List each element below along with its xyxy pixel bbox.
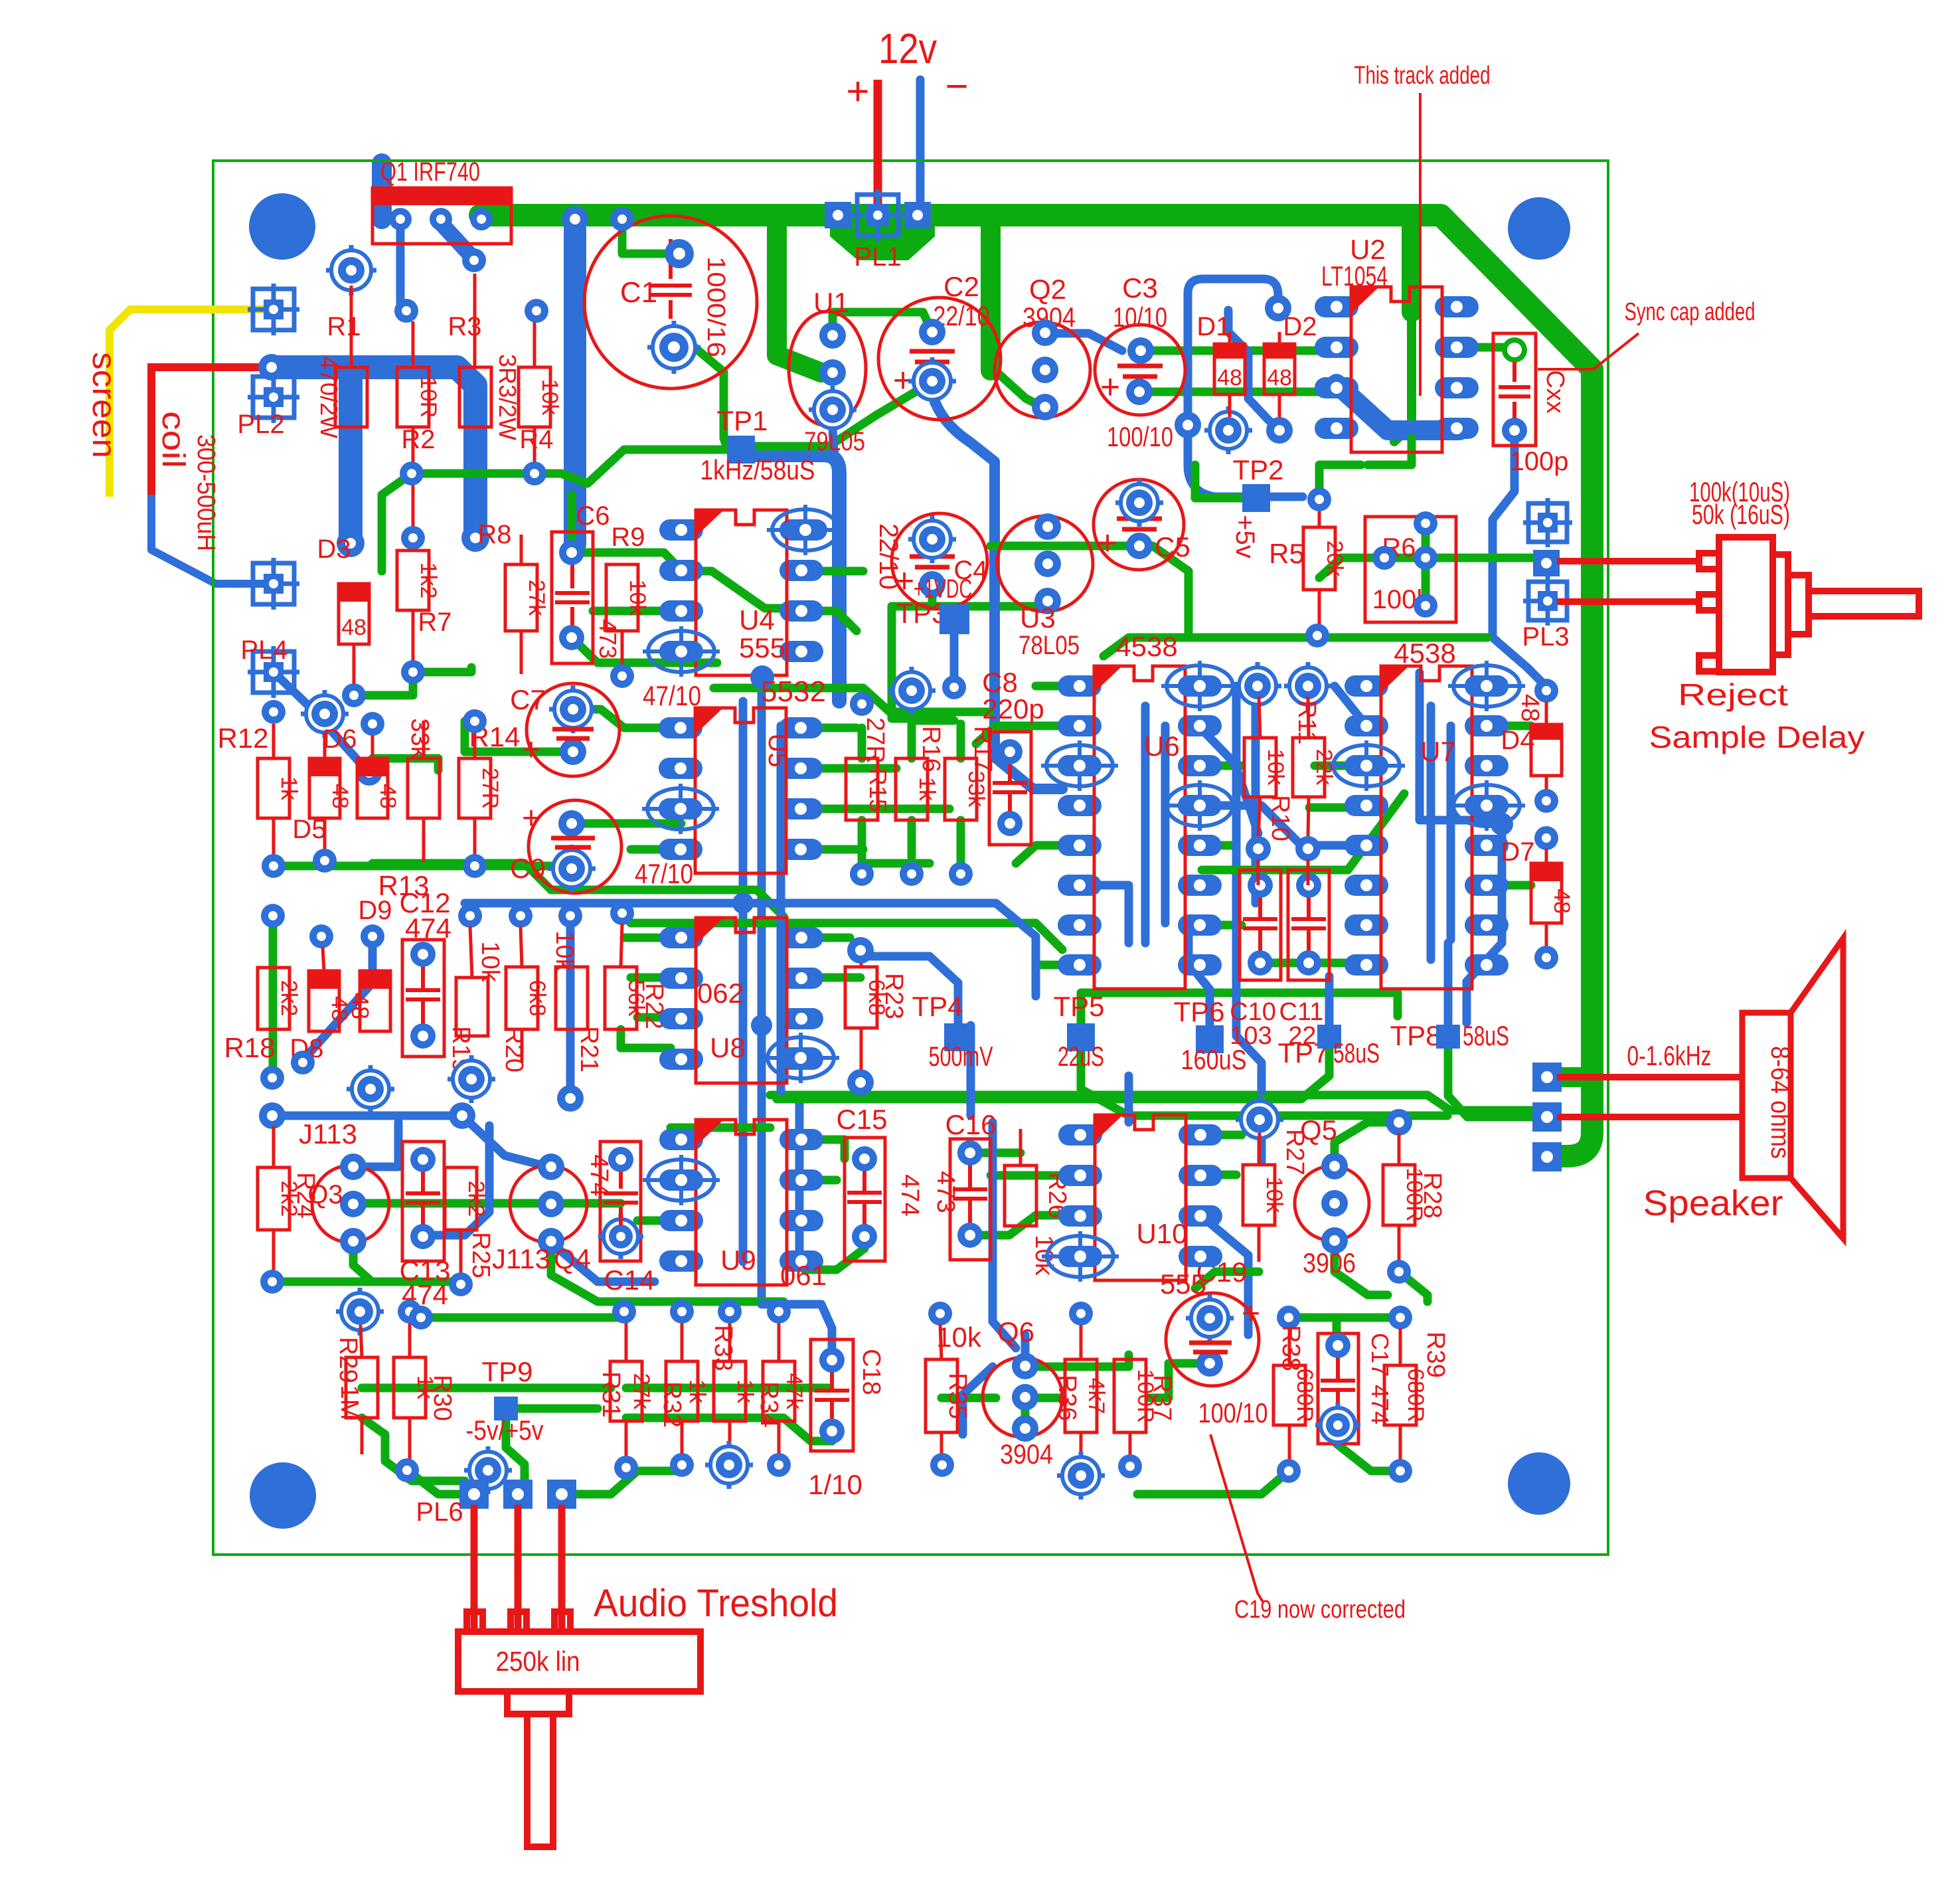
U8 ringed pad row4 right: [768, 1037, 834, 1078]
svg-text:5532: 5532: [761, 675, 826, 708]
svg-text:4k7: 4k7: [1084, 1378, 1109, 1414]
svg-text:48: 48: [1217, 365, 1242, 390]
wire Q1 gate (blue): [396, 219, 405, 311]
svg-text:TP8: TP8: [1390, 1020, 1441, 1051]
resistor R28 100R: [1386, 1109, 1412, 1136]
resistor R7 1k2: [397, 551, 429, 610]
speaker pad2: [1532, 1102, 1562, 1132]
wire green R28 to pad: [1399, 1272, 1428, 1302]
svg-text:474: 474: [896, 1174, 924, 1216]
via near R1: [326, 245, 376, 296]
mounting hole top-left: [249, 193, 315, 260]
via below R19: [448, 1055, 495, 1103]
thick blue stub above bus: [372, 163, 392, 219]
pads above R38/R39: [1277, 1306, 1301, 1329]
svg-text:470/2W: 470/2W: [315, 356, 343, 438]
resistor R4 10k: [519, 367, 550, 427]
wire green U7 to D7: [1487, 881, 1531, 890]
svg-text:10k: 10k: [936, 1322, 982, 1353]
connector PL3 pad1: [1523, 498, 1572, 547]
wire green U9 stubs: [801, 1140, 845, 1159]
svg-text:10k: 10k: [1262, 1177, 1287, 1214]
svg-text:33k: 33k: [963, 771, 989, 808]
U1 pad1: [819, 322, 846, 349]
green bus branch to Q2/C3: [981, 219, 1001, 371]
wire green D6 row: [372, 758, 438, 770]
wire green C15 to U9: [805, 1248, 864, 1270]
wire green drop x1343: [892, 606, 943, 719]
wire blue U10: [1200, 1215, 1248, 1335]
pad below R4: [523, 462, 546, 485]
pad below R18: [260, 1066, 284, 1090]
svg-text:R15: R15: [864, 768, 892, 812]
connector PL4 pad2: [248, 646, 299, 698]
transistor Q4 J113: [510, 1165, 587, 1242]
svg-text:10k: 10k: [537, 379, 562, 416]
svg-text:473: 473: [932, 1171, 959, 1213]
wire green to pads row: [421, 1314, 624, 1322]
svg-text:U5: U5: [763, 733, 792, 767]
svg-text:50k (16uS): 50k (16uS): [1692, 499, 1790, 530]
green trace from U2 to right: [1459, 347, 1514, 350]
svg-text:TP6: TP6: [1173, 996, 1224, 1027]
svg-text:10R: 10R: [416, 377, 441, 418]
wire green TP1 left: [534, 450, 728, 483]
svg-text:This track added: This track added: [1354, 62, 1491, 90]
svg-text:R23: R23: [880, 973, 908, 1019]
thick blue trace PL2 to R1/R3: [272, 367, 475, 538]
wire green Q5: [1335, 1122, 1399, 1166]
svg-text:22k: 22k: [1311, 749, 1337, 786]
wire green PL6: [407, 1470, 474, 1494]
svg-text:1k2: 1k2: [416, 562, 441, 599]
connector PL6 pad1: [459, 1480, 489, 1509]
svg-text:4538: 4538: [1115, 631, 1177, 662]
svg-text:U6: U6: [1144, 730, 1180, 762]
via left of R33 bottom: [464, 1446, 512, 1494]
U1 pad2: [819, 359, 846, 386]
potentiometer 250k lin: [458, 1612, 700, 1847]
wire speaker (red) lower: [1557, 1114, 1742, 1120]
resistor R35: [926, 1359, 957, 1432]
svg-text:Q5: Q5: [1300, 1114, 1337, 1146]
svg-text:R10: R10: [1266, 795, 1294, 841]
svg-text:D6: D6: [323, 725, 357, 754]
svg-text:TP5: TP5: [1053, 991, 1104, 1022]
C2 pad top: [919, 319, 945, 345]
C3 pad bottom: [1126, 379, 1153, 405]
svg-text:TP9: TP9: [481, 1356, 532, 1387]
svg-text:C15: C15: [836, 1104, 887, 1135]
wire green R38 row: [1289, 1314, 1400, 1322]
pad below R10: [1246, 836, 1271, 861]
wire 12v plus (red): [874, 80, 882, 215]
svg-text:TP1: TP1: [716, 405, 768, 436]
wire green R22 down: [621, 1029, 671, 1048]
transistor Q1 body: [372, 188, 511, 244]
svg-text:78L05: 78L05: [1019, 631, 1080, 660]
green bus branch to U1: [777, 219, 821, 373]
svg-text:PL2: PL2: [237, 410, 284, 439]
svg-text:1k: 1k: [685, 1379, 710, 1404]
wire blue U1 pin3 to TP1 artery: [833, 420, 838, 466]
svg-text:+: +: [1242, 1296, 1260, 1331]
svg-text:R35: R35: [943, 1373, 971, 1419]
svg-text:100/10: 100/10: [1107, 421, 1173, 452]
wire R4 top lead: [533, 321, 536, 367]
U4 ringed pad row4 left: [648, 631, 714, 672]
pads below R15-R17: [850, 862, 874, 886]
svg-text:R2: R2: [401, 425, 435, 454]
Q1 pin 2: [430, 208, 452, 230]
connector PL6 pad3: [547, 1480, 576, 1509]
wire R2 top lead: [412, 321, 415, 367]
svg-text:500mV: 500mV: [929, 1041, 993, 1072]
resistor R34 47k: [763, 1361, 795, 1421]
wire blue D1 area: [1265, 295, 1291, 321]
svg-text:C16: C16: [945, 1109, 996, 1140]
speaker body: [1742, 938, 1843, 1239]
wire green Q2: [991, 367, 1039, 405]
wire green TP7 down: [777, 1049, 1329, 1099]
resistor R26: [1005, 1165, 1036, 1226]
wire PL4 (blue): [274, 672, 364, 767]
connector PL3 pad3: [1523, 576, 1572, 626]
wire blue Q3-Q4: [353, 1122, 398, 1167]
via below D1: [1204, 406, 1252, 454]
blue traces inside U6: [1141, 706, 1150, 943]
pad above R14: [463, 709, 487, 733]
C5 pad bottom: [1126, 533, 1153, 559]
wire blue D2 bend: [1228, 310, 1278, 428]
wire blue TP3 down: [942, 675, 966, 699]
Q1 pin 3: [470, 208, 493, 230]
blue junction: [732, 893, 754, 914]
capacitor C11 222: [1288, 870, 1329, 980]
connector PL2 pad2: [248, 371, 299, 423]
IC U7 4538: [1345, 675, 1388, 697]
svg-text:D1: D1: [1196, 312, 1230, 341]
wire R2 bottom lead: [412, 427, 415, 528]
PL1 side pad left: [825, 202, 851, 228]
svg-text:C3: C3: [1122, 272, 1158, 303]
wire green D3/R7 row: [354, 672, 413, 695]
pad above R2: [394, 299, 418, 323]
svg-text:48: 48: [341, 615, 367, 640]
connector PL2 pad1: [248, 284, 299, 335]
svg-text:33k: 33k: [406, 718, 434, 759]
svg-text:R8: R8: [477, 520, 511, 549]
svg-text:U7: U7: [1420, 736, 1456, 767]
wire R4 bottom lead: [533, 427, 536, 465]
wire blue TP3 down: [950, 634, 959, 687]
diode D5 48: [309, 758, 340, 818]
wire green C6 to U4: [572, 553, 681, 570]
U10 ringed pad row4 left: [1047, 1236, 1113, 1277]
wire pot (red) 1: [471, 1505, 478, 1628]
pad above R12: [262, 700, 286, 724]
C1 pad top: [665, 239, 694, 268]
capacitor C4 22/10: [892, 513, 987, 609]
wire green TP9: [506, 1420, 525, 1494]
wire green D1 D2 row top: [1153, 347, 1321, 355]
svg-text:3906: 3906: [1303, 1247, 1356, 1278]
svg-text:TP3: TP3: [896, 598, 947, 629]
via above D5: [301, 690, 349, 738]
wire blue C13 up: [422, 1126, 489, 1235]
svg-text:R16: R16: [917, 726, 945, 772]
svg-text:−: −: [945, 64, 968, 108]
svg-text:10k: 10k: [625, 580, 650, 617]
wire speaker (red) upper: [1557, 1074, 1742, 1080]
svg-text:C14: C14: [604, 1264, 655, 1296]
speaker pad1: [1532, 1063, 1562, 1092]
svg-text:Q2: Q2: [1029, 274, 1066, 305]
pad on green top run: [1305, 624, 1329, 647]
mounting hole bottom-right: [1508, 1452, 1570, 1515]
R6 pad bottom right: [1414, 594, 1437, 618]
trimmer R6 100k: [1365, 517, 1456, 622]
wire blue U7 interior down to TP8: [1491, 813, 1513, 835]
U7 ringed pad row4 right: [1453, 785, 1520, 826]
wire green U6 top to PL3: [1103, 638, 1487, 656]
wire green U2 out bottom: [1368, 438, 1412, 465]
svg-text:+: +: [1100, 368, 1120, 406]
resistor R25 2k2: [445, 1167, 477, 1230]
pad left of R31 row: [409, 1306, 433, 1329]
wire green long row y1698: [671, 1124, 770, 1132]
IC U6 4538: [1058, 675, 1102, 697]
via above R11: [1284, 662, 1332, 710]
svg-text:coil: coil: [155, 411, 191, 468]
svg-text:R29: R29: [334, 1337, 362, 1383]
wire pot (red) 2: [515, 1505, 522, 1628]
pad at Q1 drain stub end: [462, 248, 486, 272]
svg-text:+: +: [1098, 524, 1117, 562]
svg-text:D5: D5: [292, 815, 326, 844]
diode D8 48: [309, 971, 339, 1031]
resistor R24 2k2: [258, 1167, 289, 1230]
C4 pad bottom: [919, 571, 945, 598]
pad below R9: [610, 664, 634, 688]
svg-text:062: 062: [697, 978, 744, 1009]
capacitor C13 474: [402, 1142, 444, 1261]
svg-text:C6: C6: [576, 501, 610, 531]
svg-text:48: 48: [327, 784, 353, 809]
U1 pad3: [809, 386, 857, 434]
wire blue TP6: [1188, 923, 1210, 1025]
U9 ringed pad row2 left: [648, 1159, 714, 1201]
svg-text:PL3: PL3: [1522, 622, 1569, 651]
svg-text:Q6: Q6: [997, 1316, 1034, 1347]
pad below R24: [260, 1270, 284, 1294]
wire green bottom right: [1137, 1471, 1289, 1494]
wire blue C2 to U3: [932, 393, 1062, 789]
svg-text:555: 555: [739, 632, 785, 663]
wire green R11 right: [1309, 804, 1366, 812]
wire green D1 D2 row bottom: [1153, 388, 1321, 396]
wire green U8 stubs: [624, 934, 681, 942]
wire switch (red) lower: [1557, 598, 1699, 605]
U7 ringed pad row1 right: [1453, 665, 1520, 707]
wire R1 top lead: [350, 286, 353, 367]
wire green C4 down: [928, 584, 937, 606]
resistor R18 2k2: [258, 968, 289, 1029]
resistor R10 10k: [1244, 738, 1276, 797]
wire blue TP7 up: [1325, 976, 1334, 1025]
svg-text:1k: 1k: [914, 777, 939, 802]
pad below R1: [337, 529, 365, 557]
wire green R13 row: [274, 862, 475, 871]
svg-text:R25: R25: [467, 1232, 495, 1278]
pad below R2: [401, 526, 425, 550]
IC U10 555: [1058, 1124, 1102, 1146]
wire blue row: [259, 1102, 286, 1129]
wire blue right area: [1463, 1005, 1471, 1023]
wire R7 bottom lead: [412, 610, 415, 664]
svg-text:+: +: [522, 732, 540, 768]
thick blue down from U4: [750, 665, 774, 689]
svg-text:1M: 1M: [335, 1385, 363, 1420]
svg-text:Reject: Reject: [1678, 677, 1788, 712]
svg-text:R20: R20: [500, 1026, 528, 1072]
svg-text:U8: U8: [710, 1032, 746, 1063]
wire R3 top lead: [473, 274, 477, 367]
svg-text:R30: R30: [428, 1375, 456, 1421]
svg-text:Sync cap added: Sync cap added: [1625, 298, 1756, 326]
wire blue long row: [465, 903, 1036, 996]
wire pot (red) 3: [558, 1505, 566, 1628]
wire blue Cxx down: [1493, 441, 1544, 684]
svg-text:2k2: 2k2: [276, 980, 301, 1017]
wire green long mid rows: [714, 688, 989, 712]
svg-text:+: +: [522, 801, 540, 836]
svg-text:Q1 IRF740: Q1 IRF740: [380, 157, 480, 187]
wire green R35: [941, 1394, 996, 1403]
wire green R6: [1384, 554, 1426, 562]
svg-text:C7: C7: [510, 684, 546, 715]
svg-text:48: 48: [347, 993, 374, 1019]
R6 pad mid right: [1414, 546, 1437, 570]
svg-text:J113: J113: [299, 1118, 357, 1150]
IC U8 062: [659, 927, 703, 948]
wire green U7 to C10 diagonal: [1202, 794, 1404, 870]
resistor R22 56k: [605, 967, 637, 1029]
svg-text:1/10: 1/10: [808, 1469, 862, 1500]
svg-text:3904: 3904: [1000, 1438, 1053, 1470]
svg-text:D9: D9: [358, 896, 392, 925]
wire green U4 right: [805, 567, 863, 576]
svg-text:47/10: 47/10: [635, 858, 693, 889]
wire green Q3 row: [353, 1199, 621, 1208]
svg-text:C17: C17: [1366, 1333, 1394, 1377]
svg-text:47k: 47k: [781, 1373, 807, 1411]
thick green power bus from Q1 across top, down right edge to speaker pads: [480, 215, 1592, 1156]
wire green U6 right stubs: [1200, 762, 1242, 770]
pad below R11: [1295, 836, 1321, 861]
svg-text:160uS: 160uS: [1181, 1044, 1247, 1075]
svg-text:+: +: [846, 69, 869, 114]
wire blue U6 to R10 pad: [1198, 726, 1258, 833]
resistor R32 1k: [666, 1361, 698, 1421]
svg-text:1k: 1k: [732, 1379, 758, 1404]
wire green TP5 net: [1081, 1052, 1447, 1116]
wire blue D1 area: [1188, 279, 1278, 425]
svg-text:100p: 100p: [1510, 447, 1569, 476]
wire blue TP4: [870, 956, 958, 1023]
svg-text:2k2: 2k2: [463, 1181, 489, 1217]
svg-text:48: 48: [1267, 365, 1292, 390]
pad below R3: [461, 524, 489, 552]
wire green C1 bottom to TP1: [694, 347, 728, 450]
svg-text:12v: 12v: [878, 25, 937, 72]
Q1 pin 1: [389, 208, 412, 230]
wire Q1 drain stub (blue): [441, 223, 474, 259]
wire green C1 top: [622, 219, 679, 254]
svg-text:4538: 4538: [1394, 638, 1455, 669]
IC U9 061: [659, 1129, 703, 1150]
svg-text:Sample Delay: Sample Delay: [1649, 720, 1865, 754]
via below R33: [705, 1441, 753, 1489]
wire green row y913: [892, 602, 1041, 611]
wire green U6 left stubs: [1036, 682, 1080, 691]
svg-text:47/10: 47/10: [643, 680, 701, 711]
svg-text:27k: 27k: [524, 580, 549, 617]
svg-text:250k lin: 250k lin: [496, 1646, 580, 1677]
capacitor Cxx 100p: [1493, 333, 1536, 446]
svg-text:22uS: 22uS: [1058, 1041, 1104, 1072]
thick blue trace PL2 to R1/R3: [258, 354, 285, 381]
svg-text:+: +: [894, 562, 914, 600]
wire green Q6 row: [1036, 1355, 1129, 1367]
R6 pad mid left: [1372, 546, 1396, 570]
svg-text:R36: R36: [1053, 1375, 1081, 1421]
connector PL1: [852, 189, 904, 241]
svg-text:C9: C9: [510, 853, 546, 884]
svg-text:061: 061: [780, 1260, 827, 1291]
svg-text:PL6: PL6: [416, 1497, 463, 1527]
mounting hole bottom-left: [250, 1462, 316, 1529]
svg-text:1kHz/58uS: 1kHz/58uS: [700, 454, 815, 485]
capacitor C18 1/10: [811, 1339, 853, 1451]
resistor R39 680R: [1384, 1365, 1416, 1425]
regulator U3 78L05: [997, 516, 1093, 612]
svg-text:screen: screen: [86, 352, 123, 458]
wire green R15 row: [862, 820, 930, 863]
wire green TP2: [1195, 465, 1242, 498]
svg-text:1k: 1k: [276, 776, 301, 801]
resistor R37 100R: [1114, 1359, 1146, 1432]
wire green U10 stubs: [1200, 1131, 1242, 1140]
svg-text:U10: U10: [1136, 1218, 1187, 1249]
svg-text:R1: R1: [327, 312, 361, 341]
pad above D6: [361, 712, 384, 736]
capacitor C17 474: [1318, 1333, 1358, 1444]
svg-text:-5v/+5v: -5v/+5v: [466, 1414, 544, 1446]
svg-text:100/10: 100/10: [1198, 1397, 1268, 1428]
C3 pad top: [1127, 337, 1154, 364]
svg-text:0-1.6kHz: 0-1.6kHz: [1627, 1040, 1712, 1071]
resistor R30 1k: [394, 1357, 426, 1418]
wire green U5 rows: [590, 709, 681, 728]
wire PL4 (blue): [356, 759, 382, 786]
mounting hole top-right: [1508, 197, 1570, 260]
svg-text:R9: R9: [611, 523, 645, 552]
C4 pad top via: [908, 515, 956, 563]
pad mid-left of R4: [400, 462, 424, 485]
PL1 side pad right: [904, 202, 931, 228]
svg-text:Cxx: Cxx: [1541, 370, 1569, 413]
